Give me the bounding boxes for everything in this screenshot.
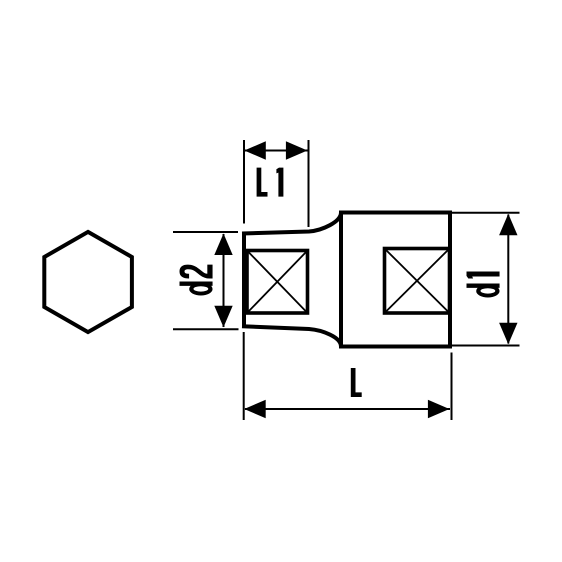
L1 dimension line: [245, 150, 308, 152]
d1 dimension line: [507, 215, 509, 344]
large box diagonal 2: [385, 249, 450, 314]
L1 extension line left: [243, 140, 245, 224]
L1 arrowhead right: [286, 141, 308, 159]
label L1 text: [257, 168, 284, 197]
d2 arrowhead bottom: [214, 306, 232, 328]
small drive square box: [247, 251, 308, 314]
label d1 text: [467, 272, 500, 298]
d2 arrowhead top: [214, 234, 232, 256]
d1 arrowhead bottom: [499, 323, 517, 345]
L arrowhead left: [244, 400, 266, 418]
small box diagonal 2: [247, 251, 308, 314]
socket body left face: [242, 232, 246, 328]
large socket square box: [385, 249, 450, 314]
socket body upper profile: [242, 213, 450, 347]
d1 extension line bottom: [452, 345, 520, 347]
socket large section left face: [339, 213, 343, 347]
d2 extension line bottom: [173, 328, 239, 330]
L1 arrowhead left: [244, 141, 265, 159]
d2 extension line top: [173, 231, 238, 233]
L dimension line: [245, 408, 450, 410]
large box diagonal 1: [385, 249, 450, 314]
L extension line left: [243, 332, 245, 420]
label d2 text: [180, 265, 213, 296]
L1 extension line right: [308, 140, 310, 227]
L extension line right: [451, 353, 453, 421]
small box diagonal 1: [247, 251, 308, 314]
label L text: [351, 368, 362, 397]
L arrowhead right: [428, 400, 450, 418]
d1 extension line top: [452, 212, 520, 214]
hexagon end view: [44, 232, 132, 332]
d1 arrowhead top: [499, 214, 517, 236]
d2 dimension line: [223, 234, 225, 327]
